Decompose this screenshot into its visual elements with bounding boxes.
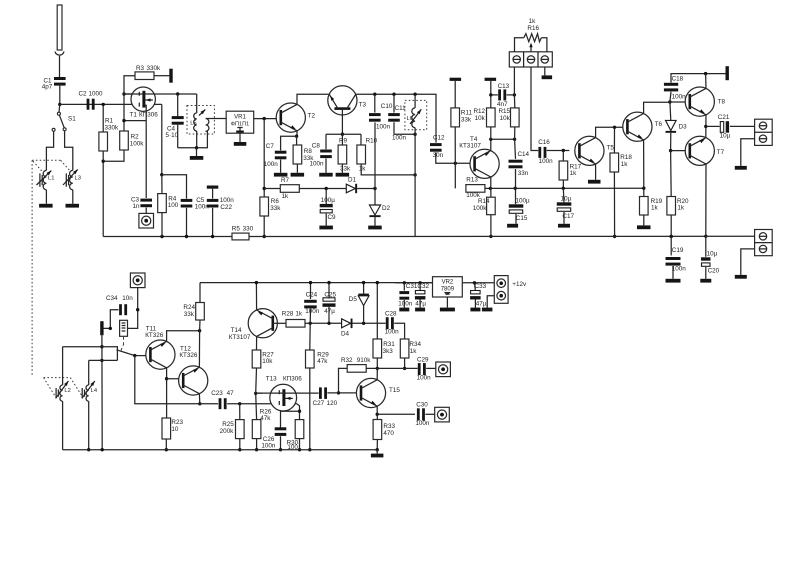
wire T2 collector	[297, 94, 329, 104]
terminal bar top right	[726, 66, 729, 80]
wire T4 emitter	[490, 139, 492, 150]
wire R2 bottom	[103, 150, 124, 161]
transistor T1 KP306	[131, 87, 155, 111]
transistor T14 KT3107	[248, 309, 277, 338]
ground under L5	[196, 148, 198, 156]
jack X4 (C30 out)	[435, 407, 450, 422]
diode D5	[363, 283, 365, 296]
ground at bus end	[376, 450, 378, 454]
node R7 left	[263, 187, 266, 190]
wire R14 bottom to bus	[490, 215, 492, 237]
wire C33	[474, 283, 475, 291]
dotted gang coupling bottom	[44, 377, 71, 379]
jack X2 (mic line)	[130, 273, 145, 288]
switch throw wire 1 (L2)	[63, 347, 118, 361]
wire R1 bottom to bus	[102, 151, 104, 237]
svg-text:33k: 33k	[184, 311, 195, 318]
antenna W1	[57, 5, 62, 50]
node T11 base	[133, 354, 136, 357]
wire T6 collector	[644, 102, 670, 113]
svg-text:L6: L6	[407, 116, 413, 122]
svg-text:C9: C9	[328, 214, 337, 221]
svg-text:910k: 910k	[357, 357, 372, 364]
node L6 top	[413, 93, 416, 96]
wire C22 bottom	[212, 208, 214, 237]
svg-text:T1: T1	[130, 112, 138, 119]
transistor T3	[328, 86, 357, 115]
capacitor C30	[417, 408, 420, 420]
svg-text:R7: R7	[281, 177, 290, 184]
svg-text:R10: R10	[366, 138, 378, 145]
svg-text:10µ: 10µ	[720, 133, 731, 140]
wire R19 top	[643, 188, 645, 196]
node T4 collector	[489, 187, 492, 190]
inductor L2 (variable)	[60, 385, 63, 401]
svg-text:47: 47	[227, 390, 235, 397]
wire T12 base	[167, 378, 184, 380]
wire to C7	[281, 136, 297, 150]
wire T3 base rail	[326, 133, 361, 135]
node R31/T15 collector	[376, 367, 379, 370]
node C10 top	[373, 93, 376, 96]
node C24 rail	[309, 281, 312, 284]
capacitor C2	[87, 99, 90, 110]
bottom ground bus	[63, 449, 378, 451]
wire R28 right	[305, 322, 342, 324]
wire R17 top	[562, 151, 564, 162]
svg-text:R5: R5	[232, 226, 241, 233]
svg-text:47µ: 47µ	[415, 300, 426, 307]
node C25 rail	[327, 281, 330, 284]
capacitor C17 10u	[557, 202, 572, 205]
svg-text:T14: T14	[231, 327, 242, 334]
wire output to C21	[706, 125, 720, 127]
wire L4 bottom to bus	[88, 401, 90, 450]
node C9 top	[325, 187, 328, 190]
svg-text:VR1: VR1	[234, 114, 246, 120]
svg-text:КП306: КП306	[139, 112, 158, 119]
svg-text:R2: R2	[131, 133, 140, 140]
node C5 bus	[185, 235, 188, 238]
svg-text:C22: C22	[220, 204, 232, 211]
node R18 bus	[613, 235, 616, 238]
resistor R33	[373, 420, 382, 440]
capacitor C29	[418, 363, 421, 375]
wire antenna to node	[59, 84, 61, 104]
capacitor C32 47u	[415, 291, 425, 294]
wire R33 bottom	[376, 440, 378, 450]
wire R25 bottom	[239, 439, 241, 450]
wire L5 bottom	[178, 131, 208, 148]
ground under D2	[374, 217, 376, 226]
potentiometer R16	[515, 38, 524, 52]
svg-text:1k: 1k	[359, 166, 367, 173]
bias rail segment	[490, 187, 643, 189]
resistor R30	[295, 420, 304, 439]
wire emitter to C30	[377, 413, 415, 415]
node R4 bus	[160, 235, 163, 238]
capacitor C5	[181, 199, 193, 202]
svg-text:C29: C29	[417, 357, 429, 364]
node C26 bus	[279, 448, 282, 451]
wire L4 top corner	[88, 360, 90, 385]
svg-text:1k: 1k	[621, 161, 629, 168]
node C33	[473, 281, 476, 284]
wire T1 source down to C3	[145, 121, 147, 198]
wire jack down	[128, 288, 138, 329]
wire R15 bottom	[514, 127, 516, 139]
wire C25 bottom	[328, 306, 330, 323]
wire C4 top	[177, 94, 179, 117]
capacitor C25 47u	[323, 298, 335, 301]
svg-text:C10: C10	[381, 103, 393, 110]
svg-text:S1: S1	[68, 116, 76, 123]
wire T11 emitter	[167, 331, 200, 342]
dashed box L5	[187, 106, 214, 135]
node T12 collector line	[198, 402, 201, 405]
terminal bar above R12	[490, 81, 492, 108]
resistor R14	[487, 197, 496, 215]
svg-text:R11: R11	[461, 109, 473, 116]
svg-text:100n: 100n	[417, 375, 432, 382]
wire C18 bottom	[670, 92, 671, 102]
wire R1 top	[102, 104, 104, 132]
jack X3 (C29 out)	[436, 362, 451, 377]
inductor L6 (variable)	[414, 94, 416, 108]
svg-text:10k: 10k	[475, 115, 486, 122]
svg-text:1k: 1k	[677, 205, 685, 212]
inductor L4 (variable)	[86, 385, 89, 401]
wire C18 top	[671, 74, 727, 83]
svg-text:10: 10	[171, 426, 179, 433]
svg-text:330k: 330k	[105, 124, 120, 131]
node C4 top	[176, 92, 179, 95]
svg-text:T8: T8	[718, 98, 726, 105]
svg-text:100n: 100n	[385, 329, 400, 336]
svg-text:C7: C7	[266, 143, 275, 150]
wire T1 source stub	[145, 105, 147, 120]
wire S1 left throw to L1	[46, 131, 53, 170]
svg-text:T13: T13	[266, 376, 277, 383]
rail to VR2	[395, 282, 433, 284]
wire T14 collector	[256, 336, 258, 350]
svg-text:VR2: VR2	[442, 280, 454, 286]
svg-text:7809: 7809	[441, 286, 455, 292]
wire R29 bottom to bus	[309, 368, 311, 450]
wire R32 left	[339, 368, 348, 393]
node T8 collector top	[704, 72, 707, 75]
capacitor C4	[172, 116, 184, 119]
ground under L1	[45, 190, 47, 204]
svg-text:100n: 100n	[264, 161, 279, 168]
svg-text:33k: 33k	[270, 205, 281, 212]
wire T7 base node to R20	[670, 151, 673, 197]
svg-text:L4: L4	[91, 388, 98, 394]
ground under L3	[72, 190, 74, 204]
capacitor C16	[538, 147, 541, 158]
wire T6 emitter to rail	[643, 140, 645, 188]
capacitor C3	[140, 199, 152, 202]
wire C34 left	[103, 310, 118, 329]
wire to C23	[200, 403, 218, 405]
resistor R29	[306, 350, 315, 368]
wire base node L-link	[135, 356, 200, 404]
node R4 top	[160, 173, 163, 176]
wire main line to R4	[161, 104, 163, 174]
ground under C7	[280, 160, 282, 173]
svg-text:10µ: 10µ	[561, 196, 572, 203]
wire gate1 line	[256, 392, 262, 394]
resistor R7	[280, 185, 299, 193]
ground under C20	[705, 267, 707, 279]
svg-text:33k: 33k	[461, 116, 472, 123]
inductor L5 (tapped, variable)	[194, 113, 197, 131]
svg-text:30n: 30n	[433, 152, 444, 159]
wire C25 top	[328, 283, 330, 299]
emitter rail to R15/C14	[491, 138, 515, 140]
node T4 base/R11 branch	[454, 162, 457, 165]
svg-text:R32: R32	[341, 357, 353, 364]
wire R24 top	[199, 283, 201, 303]
svg-text:C25: C25	[324, 291, 336, 298]
node C14/C15 rail on bias line	[514, 187, 517, 190]
ground under C32	[419, 300, 421, 308]
wire T4 collector	[490, 177, 492, 188]
svg-text:L2: L2	[64, 388, 70, 394]
terminal block	[509, 52, 552, 67]
wire middle terminal to C16	[531, 67, 538, 151]
resistor R27	[252, 350, 261, 368]
node mic bus	[101, 448, 104, 451]
wire D4 right	[353, 322, 386, 324]
ground below power connector	[482, 308, 493, 312]
wire C17 top	[562, 188, 565, 202]
wire L5 top	[196, 94, 198, 113]
svg-text:R13: R13	[466, 176, 478, 183]
wire T12 emitter up	[198, 331, 200, 368]
wire R12 bottom	[490, 127, 492, 139]
ground under T5	[588, 180, 601, 184]
capacitor C22	[207, 199, 219, 202]
node R6 bus	[263, 235, 266, 238]
svg-text:T7: T7	[717, 149, 725, 156]
transistor T15	[356, 378, 385, 407]
ground right terminal	[544, 67, 546, 75]
wire T8 collector	[705, 74, 707, 89]
transistor T8	[685, 87, 714, 116]
svg-text:100n: 100n	[672, 93, 687, 100]
svg-text:L5: L5	[190, 121, 196, 127]
resistor R23	[162, 418, 171, 439]
wire R7 left	[264, 188, 280, 190]
wire C4 bottom	[177, 124, 179, 148]
svg-text:1k: 1k	[570, 170, 578, 177]
resistor R3	[135, 72, 154, 80]
wire C26 link	[281, 411, 300, 427]
node R31 rail	[376, 281, 379, 284]
wire R3 right to bar	[154, 75, 169, 77]
wire R6 bottom to bus	[263, 216, 265, 237]
wire T5 collector to T6 base	[596, 127, 628, 137]
switch S1	[58, 104, 61, 112]
svg-text:D5: D5	[349, 296, 358, 303]
svg-text:47µ: 47µ	[324, 308, 335, 315]
node mic/throw1	[100, 345, 103, 348]
wire R3 left	[124, 76, 135, 95]
node R25 top	[238, 402, 241, 405]
svg-text:10n: 10n	[122, 295, 133, 302]
svg-text:1k: 1k	[651, 205, 659, 212]
capacitor C33 47u	[471, 291, 481, 294]
wire C5 branch	[162, 175, 187, 199]
wire R29 down	[309, 323, 311, 350]
svg-text:47µ: 47µ	[476, 300, 487, 307]
wire T14 base to R28	[273, 322, 286, 324]
node T7 base	[669, 149, 672, 152]
wire C10 bottom vertical	[374, 122, 376, 188]
node R29 bus	[308, 448, 311, 451]
wire T12 collector	[198, 394, 200, 404]
node emitter rail R24	[198, 329, 201, 332]
wire R7 right to D1	[299, 188, 346, 190]
svg-text:100n: 100n	[305, 308, 320, 315]
wire R34 bottom	[404, 358, 406, 368]
capacitor C12	[430, 143, 442, 146]
node T1 gate2	[122, 92, 125, 95]
svg-text:100: 100	[168, 202, 179, 209]
wire R23 bottom to bus	[165, 439, 167, 450]
transistor T12 KT326	[179, 366, 208, 395]
svg-text:47k: 47k	[317, 358, 328, 365]
wire T2 emitter node	[296, 131, 298, 136]
switch throw wire 2 (L4)	[89, 359, 118, 361]
svg-text:C15: C15	[516, 215, 528, 222]
wire T1 source branch to R2	[124, 120, 146, 122]
node mic/throw2	[100, 359, 103, 362]
node T2 base / R6	[263, 117, 266, 120]
wire T1 drain to C4 node	[124, 93, 197, 95]
resistor R15	[511, 108, 520, 127]
svg-text:330k: 330k	[147, 65, 162, 72]
svg-text:C8: C8	[312, 142, 321, 149]
capacitor C34	[119, 304, 122, 315]
svg-text:T3: T3	[359, 101, 367, 108]
node D5 bottom	[362, 322, 365, 325]
wire C23 right	[227, 403, 297, 405]
node T15 emitter	[376, 413, 379, 416]
capacitor C21 10u	[720, 122, 723, 133]
dashed link mic to switch	[121, 336, 124, 350]
svg-text:КТ3107: КТ3107	[229, 334, 251, 341]
node antenna/C2/S1	[58, 103, 61, 106]
node mic left	[109, 327, 112, 330]
svg-text:+12v: +12v	[512, 281, 527, 288]
node R34/C29 line	[403, 367, 406, 370]
wire R17 bottom	[562, 180, 564, 188]
svg-text:47k: 47k	[260, 415, 271, 422]
svg-text:1k: 1k	[282, 193, 290, 200]
resistor R5 (in bus)	[232, 233, 249, 240]
svg-text:100n: 100n	[220, 197, 235, 204]
wire output box lower to ground	[741, 139, 755, 166]
wire C3 to jack	[145, 208, 147, 214]
transistor T4 KT3107	[470, 149, 499, 178]
ground below output box top	[735, 166, 747, 170]
capacitor C20 10u	[701, 257, 711, 260]
ground below output box2	[735, 275, 747, 279]
svg-text:120: 120	[327, 400, 338, 407]
wire bus to output box 2	[754, 235, 756, 237]
node R33 bus end	[376, 448, 379, 451]
wire T15 collector	[376, 368, 378, 379]
transistor T2	[276, 103, 305, 132]
wire C24 up	[309, 309, 311, 323]
ground under R8	[296, 164, 298, 173]
svg-text:D2: D2	[382, 205, 391, 212]
svg-text:T5: T5	[607, 144, 615, 151]
wire R18 bottom to bus	[613, 172, 615, 236]
node D1/D2/C10	[373, 187, 376, 190]
wire terminal block left leg	[513, 67, 515, 95]
svg-text:D1: D1	[348, 177, 357, 184]
dashed box L6	[405, 100, 427, 129]
wire R14 top	[490, 188, 492, 197]
wire T13 drain to C27	[256, 392, 319, 394]
svg-text:C18: C18	[672, 76, 684, 83]
resistor R32	[347, 365, 366, 373]
wire R6 top	[263, 119, 265, 197]
node R18 top	[613, 126, 616, 129]
svg-text:100k: 100k	[473, 205, 488, 212]
terminal bar above C22	[207, 186, 219, 189]
transistor T13 KP306	[270, 384, 297, 411]
svg-text:C13: C13	[498, 83, 510, 90]
node R30 bus	[298, 448, 301, 451]
wire C13 left	[491, 94, 498, 96]
wire C11 bottom	[394, 122, 415, 134]
resistor R25	[236, 420, 245, 439]
svg-text:C31: C31	[406, 283, 418, 290]
ground under C17	[563, 212, 565, 224]
capacitor C14	[509, 160, 523, 163]
resistor R13	[466, 185, 485, 193]
resistor R17	[559, 161, 568, 180]
svg-text:T15: T15	[389, 387, 400, 394]
wire R2 top to gate node	[123, 94, 125, 131]
transistor T5	[575, 136, 604, 165]
svg-text:R9: R9	[339, 138, 348, 145]
wire T7 base	[671, 150, 690, 152]
wire R31 bottom	[376, 358, 378, 368]
wire T15 emitter	[376, 406, 378, 414]
resistor R34	[400, 339, 409, 358]
node T4 emitter rail	[489, 138, 492, 141]
svg-text:5·10: 5·10	[166, 132, 179, 139]
svg-text:C16: C16	[538, 139, 550, 146]
node T6 emitter/R19 on rail	[642, 187, 645, 190]
svg-text:L3: L3	[75, 176, 81, 182]
svg-text:D3: D3	[679, 124, 688, 131]
wire L2 top	[62, 347, 64, 385]
wire C5 bottom	[186, 208, 188, 237]
node T11 collector/T12 base	[165, 377, 168, 380]
wire R27 bottom	[255, 368, 258, 393]
wire L5 tap to VR1	[206, 118, 227, 120]
wire S1 right throw to L3	[65, 131, 73, 171]
ground under R19	[643, 215, 645, 225]
wire T5 emitter	[595, 164, 597, 180]
power connector +12v	[494, 276, 508, 304]
